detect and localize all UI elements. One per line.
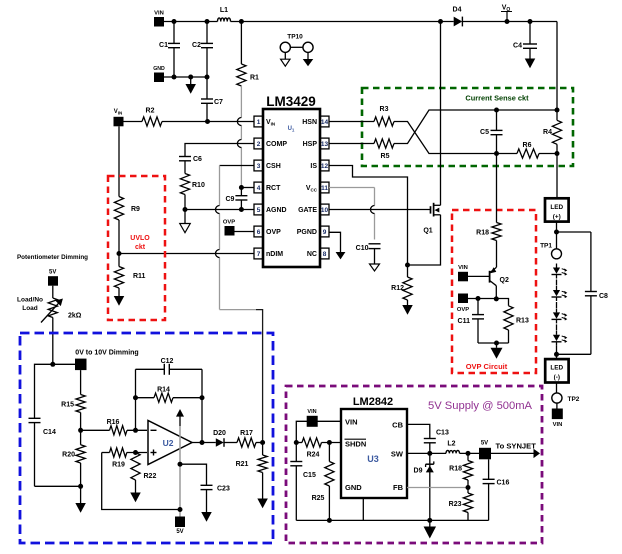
pin 2 COMP: [254, 138, 287, 149]
svg-text:C10: C10: [356, 245, 369, 252]
svg-text:VIN: VIN: [458, 265, 468, 271]
transistor Q1 NMOS: [423, 203, 440, 235]
svg-text:C4: C4: [513, 43, 522, 50]
svg-text:VIN: VIN: [553, 422, 563, 428]
svg-text:R18: R18: [449, 466, 462, 473]
wire VIN pin row: [296, 421, 341, 442]
LED D4 string: [552, 331, 568, 346]
testpoint TP10: [280, 34, 313, 53]
node top-rail junction dots: [172, 19, 533, 24]
wire Q1 source to R12 node: [405, 215, 441, 268]
op-amp supply arrow up: [176, 409, 184, 426]
wire VCC pin11 gray: [329, 188, 375, 240]
svg-text:AGND: AGND: [266, 207, 287, 214]
svg-text:6: 6: [257, 229, 261, 236]
capacitor C10: [356, 244, 381, 264]
resistor R1: [237, 22, 259, 87]
svg-text:L2: L2: [447, 441, 455, 448]
svg-text:C11: C11: [458, 318, 471, 325]
pin 5 AGND: [254, 204, 287, 215]
testpoint TP2: [552, 383, 580, 404]
wire feedback right vertical: [200, 369, 205, 442]
svg-text:OVP Circuit: OVP Circuit: [466, 362, 508, 371]
hop over AGND wire: [216, 206, 220, 214]
svg-text:U3: U3: [367, 454, 379, 464]
wire R5 cross to upper sense line: [394, 110, 557, 144]
svg-text:VIN: VIN: [307, 409, 316, 415]
pin 1 VIN: [254, 116, 275, 127]
svg-text:GND: GND: [345, 483, 362, 492]
capacitor C8: [557, 232, 609, 354]
pad Vin left: [114, 109, 124, 126]
svg-text:C13: C13: [436, 430, 449, 437]
svg-text:R19: R19: [112, 462, 125, 469]
node upper sense dots: [494, 108, 560, 113]
svg-text:R2: R2: [146, 108, 155, 115]
svg-text:D4: D4: [453, 7, 462, 14]
wire OVP bottom rail: [478, 341, 509, 346]
svg-text:R15: R15: [61, 402, 74, 409]
resistor R25: [312, 440, 334, 520]
resistor R12: [391, 265, 412, 300]
svg-text:12: 12: [321, 163, 329, 170]
box 0V to 10V Dimming: [20, 333, 273, 543]
svg-text:9: 9: [323, 229, 327, 236]
svg-text:U2: U2: [163, 438, 174, 448]
capacitor C9: [225, 185, 247, 210]
hop over pin2 wire: [237, 140, 241, 148]
LED cathode terminal block: [545, 359, 568, 382]
wire COMP to C6: [185, 144, 254, 157]
svg-text:NC: NC: [307, 251, 317, 258]
resistor R23: [449, 488, 473, 521]
svg-text:Current Sense ckt: Current Sense ckt: [465, 94, 529, 103]
svg-text:R11: R11: [133, 273, 146, 280]
resistor R6: [497, 142, 558, 158]
svg-text:R14: R14: [157, 387, 170, 394]
pad VIN Q2 base: [458, 265, 490, 281]
inductor L2: [446, 441, 460, 454]
svg-text:C8: C8: [599, 293, 608, 300]
svg-text:(+): (+): [553, 213, 561, 220]
pad dimming input: [50, 359, 86, 371]
pad OVP in box: [457, 294, 469, 314]
wire R1 to RCT gray: [240, 86, 242, 188]
ground TP10 filled: [303, 52, 314, 66]
svg-text:R10: R10: [192, 182, 205, 189]
svg-text:C2: C2: [192, 42, 201, 49]
node VO: [501, 5, 512, 22]
inductor L1: [218, 7, 231, 22]
ground R20 filled: [75, 484, 86, 513]
resistor R14: [136, 387, 203, 403]
pad 5V supply out: [479, 441, 491, 460]
op-amp U2: [148, 421, 192, 465]
wire OVP node row: [468, 296, 509, 306]
svg-text:5V: 5V: [481, 441, 488, 447]
wire LED string dashes: [556, 280, 558, 331]
svg-text:D20: D20: [213, 430, 226, 437]
ground R10 open: [184, 210, 186, 224]
diode D4: [453, 7, 463, 27]
svg-text:10: 10: [321, 207, 329, 214]
resistor R9: [114, 197, 140, 254]
svg-text:C9: C9: [225, 196, 234, 203]
wire GND pin: [362, 498, 364, 520]
pin 8 NC: [307, 248, 329, 259]
svg-text:TP10: TP10: [287, 34, 303, 41]
svg-text:C7: C7: [214, 99, 223, 106]
hop over pin1 wire: [237, 118, 241, 126]
svg-text:ckt: ckt: [135, 244, 146, 251]
svg-text:COMP: COMP: [266, 141, 287, 148]
resistor R22: [131, 453, 157, 481]
wire R2 to pin1: [162, 119, 254, 124]
hop over GATE wire: [371, 206, 375, 214]
wire GATE pin10 to Q1: [329, 209, 431, 211]
resistor R24: [294, 438, 341, 459]
box 5V Supply: [286, 386, 542, 543]
pad 5V potentiometer: [48, 270, 58, 286]
svg-text:nDIM: nDIM: [266, 251, 283, 258]
svg-text:Load/No: Load/No: [17, 297, 43, 304]
wire C8 branch top: [557, 231, 591, 233]
resistor R16: [81, 419, 147, 435]
svg-text:5V: 5V: [49, 270, 56, 276]
label Load/No Load: [17, 297, 43, 313]
pin 10 GATE: [298, 204, 329, 215]
svg-text:Potentiometer Dimming: Potentiometer Dimming: [17, 254, 88, 261]
wire sense to LED+ box: [556, 154, 558, 200]
svg-text:OVP: OVP: [457, 307, 469, 313]
wire IS pin12: [329, 166, 408, 266]
svg-text:VIN: VIN: [114, 109, 123, 116]
svg-text:Q2: Q2: [500, 277, 509, 284]
wire op-amp 5V supply gray: [178, 426, 183, 517]
node dim output dot: [260, 440, 265, 445]
ground C23 filled: [201, 512, 212, 522]
svg-text:R6: R6: [523, 142, 532, 149]
svg-text:C16: C16: [497, 480, 510, 487]
svg-text:PGND: PGND: [297, 229, 317, 236]
ground top-left filled: [185, 77, 196, 94]
box OVP Circuit: [452, 210, 536, 373]
svg-text:R13: R13: [516, 318, 529, 325]
svg-text:1: 1: [257, 119, 261, 126]
wire CSH to dimming gray: [220, 166, 263, 443]
resistor R19: [102, 448, 147, 469]
op-amp U1 LM3429 IC body: [263, 94, 320, 267]
svg-text:5: 5: [257, 207, 261, 214]
svg-text:SW: SW: [391, 449, 404, 458]
wire SW row: [407, 451, 446, 456]
svg-text:11: 11: [321, 185, 328, 192]
svg-text:8: 8: [323, 251, 327, 258]
svg-text:R12: R12: [391, 285, 404, 292]
svg-text:OVP: OVP: [223, 220, 235, 226]
node noninverting dot: [133, 450, 138, 455]
pin 9 PGND: [297, 226, 329, 237]
box UVLO ckt: [108, 176, 165, 320]
wire R3 cross to lower sense line: [394, 122, 497, 154]
wire feedback vertical: [133, 369, 138, 430]
wire PGND pin9 to ground: [329, 232, 341, 252]
svg-text:OVP: OVP: [266, 229, 281, 236]
svg-text:LM3429: LM3429: [266, 94, 316, 109]
pin 7 nDIM: [254, 248, 283, 259]
wire L2 to 5V pad: [460, 451, 480, 456]
ground R21 filled: [257, 499, 268, 509]
pin 4 RCT: [254, 182, 281, 193]
capacitor C12: [136, 358, 203, 375]
svg-text:TP2: TP2: [568, 396, 580, 403]
svg-text:C23: C23: [217, 486, 230, 493]
resistor R15: [61, 370, 85, 430]
node inverting input dot: [133, 428, 138, 433]
svg-text:C1: C1: [159, 42, 168, 49]
svg-text:LED: LED: [550, 365, 563, 372]
box Current Sense ckt: [362, 88, 573, 166]
pin 12 IS: [310, 160, 329, 171]
transistor Q2 PNP: [490, 267, 509, 286]
svg-text:2: 2: [257, 141, 261, 148]
svg-text:IS: IS: [310, 163, 317, 170]
svg-text:C15: C15: [303, 472, 316, 479]
wire LED string bottom: [554, 346, 559, 359]
wire LED+ to TP1: [554, 222, 559, 249]
svg-text:5V: 5V: [176, 529, 183, 535]
svg-text:TP1: TP1: [540, 243, 552, 250]
diode D9: [414, 453, 434, 520]
resistor R20: [62, 428, 85, 487]
svg-text:2kΩ: 2kΩ: [68, 313, 82, 320]
wire op-amp output: [192, 440, 216, 445]
svg-text:LM2842: LM2842: [353, 396, 393, 408]
wire Q1 drain: [440, 22, 442, 206]
wire top VIN rail: [164, 21, 557, 23]
capacitor C4: [513, 22, 537, 59]
wire R19 to 5V rail: [102, 453, 180, 510]
wire Vin to R9: [118, 126, 120, 196]
svg-text:R16: R16: [107, 419, 120, 426]
svg-text:R25: R25: [312, 495, 325, 502]
svg-text:R21: R21: [236, 461, 249, 468]
svg-text:R4: R4: [543, 129, 552, 136]
svg-text:HSP: HSP: [303, 141, 318, 148]
svg-text:U1: U1: [288, 126, 295, 133]
capacitor C11: [458, 299, 484, 344]
capacitor C7: [201, 77, 223, 122]
svg-text:7: 7: [257, 251, 261, 258]
ground R12 filled: [407, 300, 409, 305]
svg-text:R17: R17: [240, 430, 253, 437]
svg-text:C5: C5: [480, 129, 489, 136]
svg-text:5V Supply @ 500mA: 5V Supply @ 500mA: [428, 400, 533, 412]
LED D1 string: [552, 264, 568, 279]
resistor R21: [236, 443, 268, 499]
capacitor C23: [180, 464, 230, 512]
svg-text:GND: GND: [153, 66, 165, 72]
LED anode terminal block: [545, 198, 569, 221]
ground R11 filled: [114, 296, 125, 306]
pad VIN top-left: [154, 11, 164, 27]
wire HSN pin14 to R3: [329, 121, 374, 123]
resistor R18: [476, 223, 501, 268]
label UVLO ckt: [130, 235, 150, 251]
ground TP10 open: [281, 52, 290, 66]
capacitor C1: [159, 22, 180, 78]
pin 3 CSH: [254, 160, 281, 171]
svg-text:D9: D9: [414, 468, 423, 475]
pad VIN supply: [307, 409, 318, 427]
LED D2 string: [552, 286, 568, 301]
svg-text:4: 4: [257, 185, 261, 192]
wire VO rail to R4 column: [556, 22, 558, 111]
capacitor C5: [480, 110, 502, 154]
pin 6 OVP: [254, 226, 281, 237]
svg-text:HSN: HSN: [302, 119, 317, 126]
svg-text:0V to 10V Dimming: 0V to 10V Dimming: [75, 350, 138, 357]
wire nDIM row: [117, 251, 255, 256]
resistor R3: [374, 106, 394, 126]
diode D20: [213, 430, 226, 447]
ground PGND filled: [336, 252, 346, 259]
wire OVP pad to pin6: [234, 231, 254, 233]
svg-text:C12: C12: [161, 358, 174, 365]
pad GND top-left: [153, 66, 165, 82]
svg-text:(-): (-): [554, 374, 560, 381]
svg-text:VIN: VIN: [345, 417, 358, 426]
capacitor C14: [29, 364, 81, 486]
resistor R18 supply: [449, 453, 472, 487]
capacitor C15: [290, 443, 316, 521]
ground R22 filled: [135, 480, 137, 493]
wire GND row: [164, 75, 210, 80]
svg-text:VIN: VIN: [154, 11, 164, 17]
capacitor C2: [192, 22, 213, 78]
pin 11 VCC: [306, 182, 329, 193]
resistor R10: [180, 174, 205, 210]
svg-text:14: 14: [321, 119, 329, 126]
wire sense node to R18: [496, 154, 498, 223]
svg-text:To SYNJET: To SYNJET: [496, 442, 537, 451]
wire HSP pin13 to R5: [329, 143, 374, 145]
svg-text:R1: R1: [250, 75, 259, 82]
svg-text:3: 3: [257, 163, 261, 170]
ground C4 filled: [525, 59, 536, 69]
svg-text:GATE: GATE: [298, 207, 317, 214]
node lower sense dots: [494, 151, 560, 156]
wire AGND row: [183, 207, 255, 212]
svg-text:R24: R24: [307, 452, 320, 459]
svg-text:R5: R5: [381, 153, 390, 160]
svg-text:CB: CB: [392, 420, 403, 429]
svg-text:R18: R18: [476, 230, 489, 237]
wire CB to C13: [407, 424, 430, 438]
wire supply bottom rail: [296, 518, 488, 523]
resistor R5: [374, 139, 394, 160]
ground OVP filled: [496, 343, 498, 348]
svg-text:13: 13: [321, 141, 329, 148]
resistor R13: [504, 306, 529, 343]
svg-text:UVLO: UVLO: [130, 235, 150, 242]
svg-text:R20: R20: [62, 452, 75, 459]
op-amp U3 LM2842 IC body: [341, 396, 407, 498]
resistor R11: [114, 254, 145, 297]
resistor R2: [124, 108, 163, 127]
ground supply filled: [429, 520, 431, 526]
wire Q2 collector to OVP node: [494, 286, 499, 302]
pad VIN bottom right: [552, 403, 563, 428]
capacitor C16: [483, 459, 510, 520]
pin 14 HSN: [302, 116, 329, 127]
resistor R4: [543, 110, 562, 154]
svg-text:C14: C14: [43, 429, 56, 436]
svg-text:R3: R3: [380, 106, 389, 113]
pad 5V op-amp: [175, 517, 185, 535]
wire RCT pin4: [241, 187, 254, 189]
wire FB gray: [407, 485, 471, 490]
testpoint TP1: [540, 243, 561, 259]
svg-text:FB: FB: [393, 483, 404, 492]
wire To SYNJET arrow: [491, 442, 540, 459]
svg-text:RCT: RCT: [266, 185, 281, 192]
LED D3 string: [552, 308, 568, 323]
potentiometer 2k: [41, 286, 82, 365]
capacitor C6: [179, 156, 202, 174]
svg-text:Load: Load: [22, 305, 38, 312]
svg-text:L1: L1: [220, 7, 228, 14]
svg-text:Q1: Q1: [423, 228, 432, 235]
svg-text:LED: LED: [550, 204, 563, 211]
pad OVP left: [223, 220, 235, 236]
svg-text:C6: C6: [193, 156, 202, 163]
pin 13 HSP: [303, 138, 329, 149]
hop over nDIM wire: [216, 250, 220, 258]
capacitor C13: [424, 430, 449, 454]
svg-text:SHDN: SHDN: [345, 439, 366, 448]
svg-text:R9: R9: [131, 206, 140, 213]
svg-text:R23: R23: [449, 501, 462, 508]
ground C10 open: [370, 264, 380, 271]
svg-text:CSH: CSH: [266, 163, 281, 170]
resistor R17: [224, 430, 263, 447]
svg-text:R22: R22: [144, 473, 157, 480]
